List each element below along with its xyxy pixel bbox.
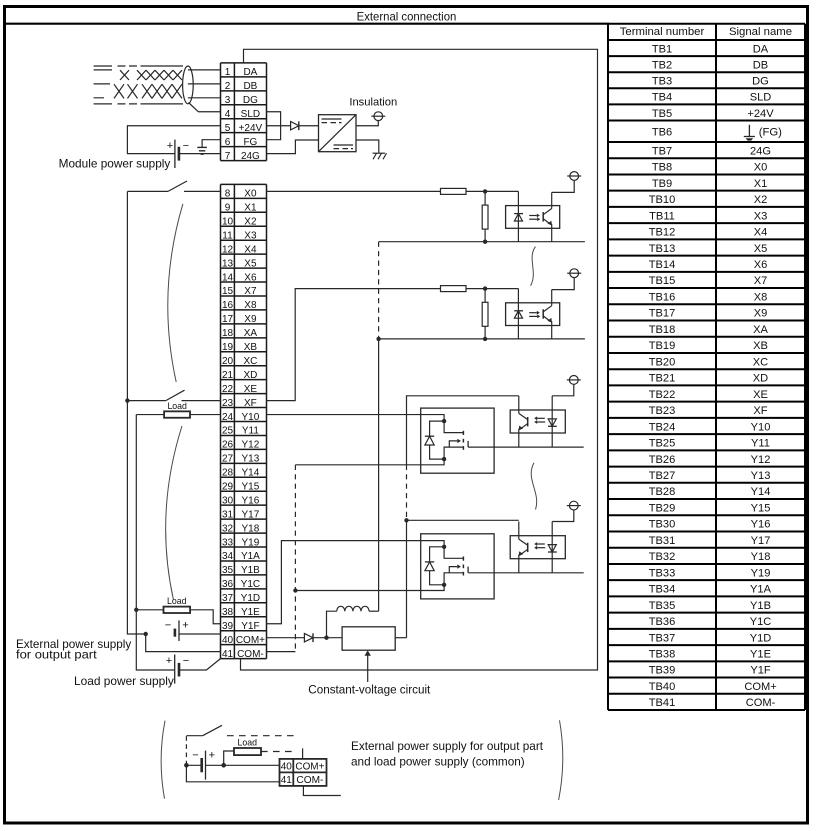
svg-text:SLD: SLD bbox=[750, 92, 772, 104]
svg-text:DG: DG bbox=[243, 95, 258, 106]
svg-text:XA: XA bbox=[244, 328, 258, 339]
svg-text:TB30: TB30 bbox=[649, 519, 676, 531]
svg-text:TB27: TB27 bbox=[649, 470, 676, 482]
svg-text:X6: X6 bbox=[244, 272, 257, 283]
svg-text:TB41: TB41 bbox=[649, 697, 676, 709]
svg-text:TB4: TB4 bbox=[652, 92, 672, 104]
svg-text:+24V: +24V bbox=[239, 123, 263, 134]
svg-text:TB14: TB14 bbox=[649, 259, 676, 271]
svg-text:TB2: TB2 bbox=[652, 59, 672, 71]
svg-text:Y1E: Y1E bbox=[241, 607, 260, 618]
svg-text:TB28: TB28 bbox=[649, 486, 676, 498]
svg-text:TB16: TB16 bbox=[649, 291, 676, 303]
svg-text:19: 19 bbox=[222, 342, 234, 353]
svg-text:X1: X1 bbox=[754, 178, 768, 190]
svg-text:X0: X0 bbox=[754, 162, 768, 174]
svg-text:TB35: TB35 bbox=[649, 600, 676, 612]
svg-text:26: 26 bbox=[222, 440, 234, 451]
svg-text:Y12: Y12 bbox=[751, 454, 771, 466]
svg-text:X9: X9 bbox=[754, 308, 768, 320]
svg-text:Y13: Y13 bbox=[242, 454, 260, 465]
svg-text:TB33: TB33 bbox=[649, 567, 676, 579]
svg-text:Y16: Y16 bbox=[751, 519, 771, 531]
svg-text:Y14: Y14 bbox=[751, 486, 771, 498]
svg-text:Y10: Y10 bbox=[751, 421, 771, 433]
svg-text:TB3: TB3 bbox=[652, 76, 672, 88]
svg-text:for output part: for output part bbox=[16, 647, 97, 661]
svg-text:X7: X7 bbox=[754, 275, 768, 287]
svg-text:X8: X8 bbox=[244, 300, 257, 311]
svg-text:Y1B: Y1B bbox=[241, 565, 260, 576]
svg-text:TB15: TB15 bbox=[649, 275, 676, 287]
svg-text:16: 16 bbox=[222, 300, 234, 311]
svg-text:Y10: Y10 bbox=[242, 412, 260, 423]
svg-text:27: 27 bbox=[222, 454, 234, 465]
svg-text:TB19: TB19 bbox=[649, 340, 676, 352]
svg-text:COM-: COM- bbox=[296, 775, 323, 786]
svg-text:12: 12 bbox=[222, 244, 234, 255]
svg-text:DA: DA bbox=[243, 67, 257, 78]
svg-text:41: 41 bbox=[281, 775, 293, 786]
svg-text:28: 28 bbox=[222, 468, 234, 479]
svg-text:Load: Load bbox=[167, 401, 187, 411]
svg-text:24: 24 bbox=[222, 412, 234, 423]
svg-text:XC: XC bbox=[243, 356, 257, 367]
svg-text:25: 25 bbox=[222, 426, 234, 437]
svg-text:DA: DA bbox=[753, 43, 769, 55]
svg-text:−: − bbox=[165, 619, 171, 631]
svg-text:TB32: TB32 bbox=[649, 551, 676, 563]
svg-text:5: 5 bbox=[225, 123, 231, 134]
svg-text:Y1A: Y1A bbox=[241, 551, 260, 562]
svg-text:+: + bbox=[167, 140, 173, 152]
svg-text:Y1B: Y1B bbox=[750, 600, 771, 612]
svg-text:−: − bbox=[183, 140, 189, 152]
svg-text:33: 33 bbox=[222, 537, 234, 548]
svg-text:X3: X3 bbox=[754, 210, 768, 222]
svg-text:38: 38 bbox=[222, 607, 234, 618]
svg-text:15: 15 bbox=[222, 286, 234, 297]
svg-text:4: 4 bbox=[225, 109, 231, 120]
svg-text:Y1D: Y1D bbox=[241, 593, 260, 604]
svg-text:11: 11 bbox=[222, 230, 233, 241]
svg-text:−: − bbox=[192, 749, 198, 761]
svg-text:X4: X4 bbox=[244, 244, 257, 255]
svg-text:40: 40 bbox=[281, 762, 293, 773]
svg-text:TB9: TB9 bbox=[652, 178, 672, 190]
svg-text:Y1F: Y1F bbox=[750, 665, 771, 677]
svg-text:+: + bbox=[209, 750, 215, 762]
svg-text:TB11: TB11 bbox=[649, 210, 675, 222]
svg-text:TB40: TB40 bbox=[649, 681, 676, 693]
svg-text:DG: DG bbox=[752, 76, 769, 88]
svg-text:30: 30 bbox=[222, 495, 234, 506]
svg-text:X7: X7 bbox=[244, 286, 257, 297]
svg-text:COM-: COM- bbox=[237, 649, 264, 660]
svg-text:23: 23 bbox=[222, 398, 234, 409]
svg-text:TB38: TB38 bbox=[649, 649, 676, 661]
svg-text:XB: XB bbox=[244, 342, 258, 353]
svg-text:X5: X5 bbox=[244, 258, 257, 269]
svg-text:Y19: Y19 bbox=[242, 537, 260, 548]
svg-text:X8: X8 bbox=[754, 291, 768, 303]
svg-text:TB26: TB26 bbox=[649, 454, 676, 466]
svg-text:X2: X2 bbox=[244, 216, 257, 227]
svg-text:36: 36 bbox=[222, 579, 234, 590]
svg-text:32: 32 bbox=[222, 523, 234, 534]
svg-text:Y17: Y17 bbox=[242, 509, 260, 520]
svg-text:13: 13 bbox=[222, 258, 234, 269]
svg-text:Load power supply: Load power supply bbox=[74, 674, 174, 688]
svg-text:XB: XB bbox=[753, 340, 768, 352]
svg-text:37: 37 bbox=[222, 593, 234, 604]
svg-text:Constant-voltage circuit: Constant-voltage circuit bbox=[308, 683, 431, 697]
svg-text:TB25: TB25 bbox=[649, 438, 676, 450]
svg-text:22: 22 bbox=[222, 384, 234, 395]
svg-text:TB31: TB31 bbox=[649, 535, 676, 547]
svg-text:6: 6 bbox=[225, 137, 231, 148]
svg-text:COM+: COM+ bbox=[236, 635, 265, 646]
svg-text:31: 31 bbox=[222, 509, 234, 520]
svg-text:18: 18 bbox=[222, 328, 234, 339]
svg-text:XE: XE bbox=[244, 384, 258, 395]
svg-text:Signal name: Signal name bbox=[729, 26, 792, 38]
svg-text:3: 3 bbox=[225, 95, 231, 106]
svg-text:Y1C: Y1C bbox=[241, 579, 260, 590]
svg-text:X0: X0 bbox=[244, 189, 257, 200]
svg-text:TB13: TB13 bbox=[649, 243, 676, 255]
svg-text:Y13: Y13 bbox=[751, 470, 771, 482]
svg-text:FG: FG bbox=[243, 137, 257, 148]
svg-text:35: 35 bbox=[222, 565, 234, 576]
svg-text:+: + bbox=[182, 619, 188, 631]
svg-text:XE: XE bbox=[753, 389, 768, 401]
svg-text:Y15: Y15 bbox=[242, 481, 260, 492]
svg-text:Y1C: Y1C bbox=[750, 616, 772, 628]
svg-text:XD: XD bbox=[243, 370, 257, 381]
svg-text:Y1E: Y1E bbox=[750, 649, 771, 661]
svg-text:Y18: Y18 bbox=[242, 523, 260, 534]
svg-text:TB24: TB24 bbox=[649, 421, 676, 433]
svg-text:External power supply for outp: External power supply for output part bbox=[351, 739, 544, 753]
svg-text:(FG): (FG) bbox=[759, 127, 782, 139]
svg-text:Insulation: Insulation bbox=[349, 96, 397, 108]
svg-text:Terminal number: Terminal number bbox=[620, 26, 705, 38]
svg-text:TB17: TB17 bbox=[649, 308, 676, 320]
svg-text:TB29: TB29 bbox=[649, 502, 676, 514]
svg-text:21: 21 bbox=[222, 370, 234, 381]
svg-text:TB6: TB6 bbox=[652, 127, 672, 139]
svg-text:24G: 24G bbox=[750, 145, 771, 157]
svg-text:2: 2 bbox=[225, 81, 231, 92]
svg-text:TB36: TB36 bbox=[649, 616, 676, 628]
svg-text:Load: Load bbox=[238, 738, 258, 748]
svg-text:TB10: TB10 bbox=[649, 194, 676, 206]
svg-text:Y15: Y15 bbox=[751, 502, 771, 514]
svg-text:XA: XA bbox=[753, 324, 768, 336]
svg-text:29: 29 bbox=[222, 481, 234, 492]
svg-text:41: 41 bbox=[222, 649, 234, 660]
svg-text:TB1: TB1 bbox=[652, 43, 672, 55]
svg-text:XF: XF bbox=[244, 398, 257, 409]
svg-text:14: 14 bbox=[222, 272, 234, 283]
svg-text:+: + bbox=[166, 655, 172, 667]
svg-text:DB: DB bbox=[753, 59, 768, 71]
svg-text:20: 20 bbox=[222, 356, 234, 367]
svg-text:X9: X9 bbox=[244, 314, 257, 325]
svg-text:X4: X4 bbox=[754, 227, 768, 239]
svg-text:X3: X3 bbox=[244, 230, 257, 241]
svg-text:TB12: TB12 bbox=[649, 227, 676, 239]
svg-text:TB23: TB23 bbox=[649, 405, 676, 417]
svg-text:TB21: TB21 bbox=[649, 373, 676, 385]
svg-text:8: 8 bbox=[225, 189, 231, 200]
svg-text:Y11: Y11 bbox=[751, 438, 770, 450]
svg-text:COM+: COM+ bbox=[295, 762, 324, 773]
svg-text:XF: XF bbox=[753, 405, 767, 417]
svg-text:X6: X6 bbox=[754, 259, 768, 271]
svg-text:Y1A: Y1A bbox=[750, 584, 772, 596]
svg-text:TB22: TB22 bbox=[649, 389, 676, 401]
svg-text:XD: XD bbox=[753, 373, 768, 385]
svg-text:9: 9 bbox=[225, 203, 231, 214]
svg-text:X1: X1 bbox=[244, 203, 257, 214]
svg-text:TB7: TB7 bbox=[652, 145, 672, 157]
svg-text:COM-: COM- bbox=[746, 697, 776, 709]
svg-text:DB: DB bbox=[243, 81, 257, 92]
svg-text:34: 34 bbox=[222, 551, 234, 562]
svg-text:24G: 24G bbox=[241, 151, 260, 162]
svg-text:+24V: +24V bbox=[747, 108, 774, 120]
svg-text:Module power supply: Module power supply bbox=[59, 156, 171, 170]
svg-text:X2: X2 bbox=[754, 194, 768, 206]
svg-text:XC: XC bbox=[753, 356, 768, 368]
svg-text:TB18: TB18 bbox=[649, 324, 676, 336]
svg-text:40: 40 bbox=[222, 635, 234, 646]
svg-text:SLD: SLD bbox=[241, 109, 260, 120]
svg-text:TB34: TB34 bbox=[649, 584, 676, 596]
svg-text:1: 1 bbox=[225, 67, 231, 78]
svg-text:TB39: TB39 bbox=[649, 665, 676, 677]
svg-text:Y12: Y12 bbox=[242, 440, 260, 451]
svg-text:TB20: TB20 bbox=[649, 356, 676, 368]
svg-text:7: 7 bbox=[225, 151, 231, 162]
svg-text:Y1D: Y1D bbox=[750, 632, 772, 644]
svg-text:Y17: Y17 bbox=[751, 535, 771, 547]
svg-text:39: 39 bbox=[222, 621, 234, 632]
svg-text:TB8: TB8 bbox=[652, 162, 672, 174]
svg-text:TB5: TB5 bbox=[652, 108, 672, 120]
svg-text:Y18: Y18 bbox=[751, 551, 771, 563]
svg-text:X5: X5 bbox=[754, 243, 768, 255]
svg-text:Y19: Y19 bbox=[751, 567, 771, 579]
svg-text:Y16: Y16 bbox=[242, 495, 260, 506]
svg-text:Y11: Y11 bbox=[242, 426, 259, 437]
svg-text:−: − bbox=[183, 655, 189, 667]
svg-text:17: 17 bbox=[222, 314, 234, 325]
svg-text:Load: Load bbox=[167, 596, 187, 606]
svg-text:COM+: COM+ bbox=[744, 681, 776, 693]
svg-text:and load power supply (common): and load power supply (common) bbox=[351, 754, 525, 768]
svg-text:10: 10 bbox=[222, 216, 234, 227]
svg-text:External connection: External connection bbox=[357, 9, 457, 23]
svg-text:Y1F: Y1F bbox=[241, 621, 259, 632]
svg-text:TB37: TB37 bbox=[649, 632, 676, 644]
svg-text:Y14: Y14 bbox=[242, 468, 260, 479]
